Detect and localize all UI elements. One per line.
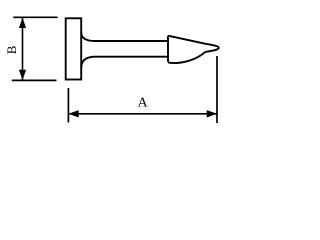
svg-text:B: B: [4, 45, 19, 54]
dimension A right extension line: [216, 56, 218, 123]
dimension A left arrowhead: [68, 110, 78, 117]
tip cone bottom edge: [168, 52, 205, 63]
dimension B bottom arrowhead: [19, 70, 26, 80]
shank top line: [95, 40, 168, 42]
svg-text:A: A: [137, 95, 148, 110]
dimension B line: [22, 18, 24, 80]
dimension A left extension line: [67, 88, 69, 123]
dimension B top arrowhead: [19, 18, 26, 28]
dimension B bottom extension line: [12, 79, 57, 81]
pin head rectangle: [66, 18, 82, 79]
dimension A line: [69, 113, 218, 115]
fillet top head-to-shank: [81, 33, 95, 42]
dimension A right arrowhead: [207, 110, 217, 117]
tip cone top edge and rounded point: [168, 36, 219, 52]
fillet bottom head-to-shank: [81, 57, 95, 68]
shank bottom line: [95, 56, 168, 58]
tip cone base vertical line: [167, 36, 169, 62]
dimension B top extension line: [13, 16, 58, 18]
